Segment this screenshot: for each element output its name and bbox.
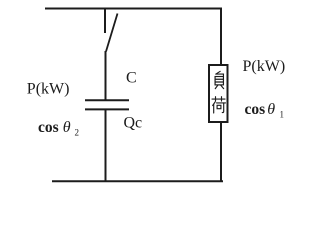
svg-text:P(kW): P(kW) (243, 58, 286, 75)
svg-text:cos: cos (245, 101, 266, 118)
svg-text:C: C (126, 69, 137, 86)
svg-text:cos: cos (38, 119, 59, 136)
svg-text:θ: θ (267, 101, 275, 118)
svg-text:θ: θ (63, 119, 71, 136)
svg-text:P(kW): P(kW) (27, 81, 70, 98)
svg-text:Qc: Qc (124, 115, 143, 132)
svg-text:1: 1 (280, 110, 285, 120)
svg-text:2: 2 (75, 128, 80, 138)
